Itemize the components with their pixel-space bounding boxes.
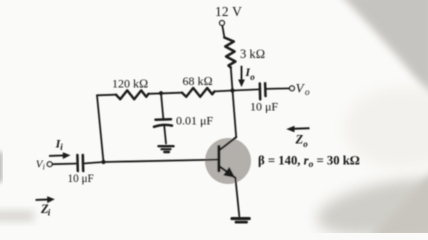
svg-text:120 kΩ: 120 kΩ (112, 77, 148, 91)
svg-text:12 V: 12 V (215, 4, 242, 19)
svg-text:o: o (303, 139, 308, 149)
svg-text:i: i (43, 163, 45, 172)
svg-text:3 kΩ: 3 kΩ (240, 47, 265, 61)
svg-text:0.01 μF: 0.01 μF (176, 114, 213, 128)
svg-text:68 kΩ: 68 kΩ (183, 74, 213, 88)
svg-text:Z: Z (295, 133, 304, 147)
svg-text:o: o (250, 72, 255, 82)
svg-text:10 μF: 10 μF (68, 173, 94, 185)
svg-text:10 μF: 10 μF (250, 100, 278, 114)
svg-text:o: o (305, 88, 310, 98)
